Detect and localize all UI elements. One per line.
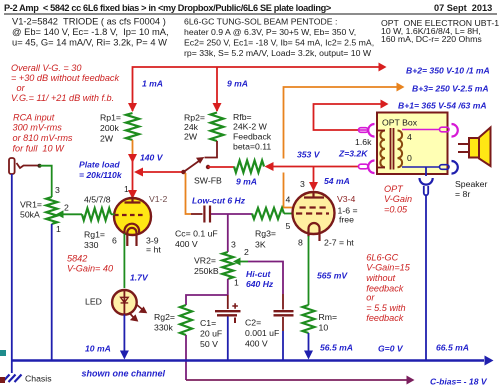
svg-text:9 mA: 9 mA bbox=[236, 177, 257, 187]
node: input junction bbox=[38, 164, 42, 168]
svg-text:2-7 = ht: 2-7 = ht bbox=[324, 238, 354, 248]
wire: primary top to box edge bbox=[377, 130, 385, 132]
svg-text:2W: 2W bbox=[100, 134, 114, 144]
svg-text:10 mA: 10 mA bbox=[85, 344, 111, 354]
svg-text:0.001 uF: 0.001 uF bbox=[245, 328, 279, 338]
wire: B+1 to OPT upper pin bbox=[314, 104, 386, 130]
wire: drop to V3-4 plate bbox=[313, 167, 315, 183]
svg-text:= 20k/110k: = 20k/110k bbox=[79, 170, 123, 180]
arrow into Rfb from plate line bbox=[265, 162, 274, 171]
V1 plate bbox=[125, 199, 141, 203]
V3 cathode bbox=[309, 223, 320, 241]
arrow into Rp2 bbox=[213, 103, 222, 112]
wire: C2 to bus bbox=[282, 331, 284, 360]
svg-text:54 mA: 54 mA bbox=[324, 176, 350, 186]
svg-text:8: 8 bbox=[298, 238, 303, 248]
wire: RCA centre pin hook bbox=[17, 163, 39, 168]
svg-text:07 Sept 2013: 07 Sept 2013 bbox=[434, 3, 492, 13]
svg-text:565 mV: 565 mV bbox=[317, 271, 348, 281]
svg-text:V-Gain: V-Gain bbox=[384, 194, 412, 204]
wire: V3 cathode to Rm bbox=[308, 236, 310, 305]
svg-text:300 mV-rms: 300 mV-rms bbox=[13, 123, 63, 133]
resistor Rg3 3K bbox=[252, 208, 284, 219]
wire: Rm to bus with arrow bbox=[308, 333, 310, 351]
wire: B+2 top rail bbox=[133, 67, 384, 111]
svg-text:0: 0 bbox=[407, 153, 412, 163]
svg-text:3: 3 bbox=[300, 179, 305, 189]
resistor Rfb 24K feedback bbox=[234, 161, 264, 173]
svg-text:Low-cut 6 Hz: Low-cut 6 Hz bbox=[192, 196, 246, 206]
wire: to VR1 top bbox=[40, 166, 52, 197]
svg-text:Rg2=: Rg2= bbox=[154, 312, 175, 322]
OPT secondary winding bbox=[398, 131, 403, 168]
svg-text:4: 4 bbox=[286, 195, 291, 205]
svg-text:1: 1 bbox=[56, 224, 61, 234]
wire: V1 plate feed bbox=[132, 160, 134, 191]
wire: LED to bus with arrow bbox=[123, 315, 125, 352]
resistor Rp1 200k bbox=[126, 113, 139, 140]
capacitor Cc 0.1uF bbox=[203, 206, 205, 223]
wire: secondary 0-tap (blue) bbox=[402, 166, 440, 168]
svg-text:shown one channel: shown one channel bbox=[82, 369, 166, 379]
tube V1-2 5842 envelope bbox=[114, 198, 151, 235]
svg-text:G=0 V: G=0 V bbox=[378, 344, 404, 354]
chassis jack below OPT bbox=[420, 178, 433, 185]
svg-text:= 8r: = 8r bbox=[455, 189, 470, 199]
svg-text:@ Eb= 140 V, Ec= -1.8 V, Ip=: @ Eb= 140 V, Ec= -1.8 V, Ip= 10 mA, bbox=[12, 27, 169, 37]
switch SW-FB blade bbox=[184, 160, 202, 173]
ground bus bbox=[12, 359, 484, 362]
svg-text:2W: 2W bbox=[184, 132, 198, 142]
potentiometer VR2 250kB bbox=[222, 252, 233, 279]
svg-text:or: or bbox=[366, 293, 375, 303]
svg-text:C2=: C2= bbox=[245, 318, 261, 328]
svg-text:Plate load: Plate load bbox=[79, 160, 120, 170]
svg-text:V3-4: V3-4 bbox=[337, 194, 356, 204]
svg-text:V-Gain= 40: V-Gain= 40 bbox=[67, 263, 113, 273]
svg-text:6: 6 bbox=[112, 236, 117, 246]
svg-text:400 V: 400 V bbox=[245, 339, 268, 349]
chassis ground symbol bbox=[3, 375, 22, 383]
V3 screen grid (dashed) bbox=[300, 206, 328, 208]
svg-text:6L6-GC: 6L6-GC bbox=[366, 253, 398, 263]
svg-text:heater 0.9 A @ 6.3V, P= 30+5 W: heater 0.9 A @ 6.3V, P= 30+5 W, Eb= 350 … bbox=[184, 27, 356, 37]
svg-text:beta=0.11: beta=0.11 bbox=[233, 142, 271, 152]
LED emission arrows bbox=[137, 305, 146, 313]
svg-text:Rfb=: Rfb= bbox=[233, 112, 252, 122]
capacitor C1 20uF bbox=[227, 295, 229, 309]
svg-text:66.5 mA: 66.5 mA bbox=[436, 343, 469, 353]
LED indicator bbox=[112, 290, 137, 315]
svg-text:3: 3 bbox=[231, 240, 236, 250]
wire: plate node horizontal with left arrow bbox=[141, 171, 184, 173]
svg-text:24k: 24k bbox=[184, 122, 199, 132]
wire: VR2 bottom to C1/Rg2 junction bbox=[227, 279, 229, 295]
svg-text:1: 1 bbox=[124, 184, 129, 194]
svg-text:200k: 200k bbox=[100, 123, 119, 133]
svg-text:or: or bbox=[14, 83, 26, 93]
svg-text:Overall V-G. = 30: Overall V-G. = 30 bbox=[11, 63, 81, 73]
svg-text:VR2=: VR2= bbox=[194, 256, 216, 266]
arrow into V1 plate bbox=[128, 190, 137, 199]
svg-text:SW-FB: SW-FB bbox=[194, 176, 222, 186]
V1 grid (dashed) bbox=[114, 214, 144, 216]
svg-text:4/5/7/8: 4/5/7/8 bbox=[84, 195, 111, 205]
OPT left top connector (plug+jack) bbox=[358, 129, 368, 131]
svg-text:10: 10 bbox=[319, 323, 329, 333]
svg-text:140 V: 140 V bbox=[140, 153, 164, 163]
svg-text:V.G.= 11/ +21 dB with f.b.: V.G.= 11/ +21 dB with f.b. bbox=[11, 93, 114, 103]
svg-text:Rm=: Rm= bbox=[319, 312, 338, 322]
V3 control grid (dashed) bbox=[296, 212, 329, 214]
OPT left bottom connector bbox=[359, 164, 369, 169]
svg-text:=0.05: =0.05 bbox=[384, 204, 408, 214]
wire: secondary 4-tap (magenta) bbox=[402, 129, 440, 131]
VR2 wiper arrow bbox=[233, 258, 241, 266]
resistor Rp2 24k bbox=[211, 113, 224, 142]
svg-text:for full 10 W: for full 10 W bbox=[13, 143, 66, 153]
svg-text:5: 5 bbox=[286, 221, 291, 231]
V3 plate bbox=[304, 193, 324, 198]
svg-text:640 Hz: 640 Hz bbox=[246, 279, 274, 289]
wire: SW node down to Cc (orange) bbox=[186, 173, 192, 214]
wire: OPT ground to bus bbox=[425, 195, 427, 360]
svg-text:RCA input: RCA input bbox=[13, 113, 55, 123]
wire: C-bias line bbox=[186, 379, 411, 381]
OPT right top connector bbox=[440, 127, 450, 132]
svg-text:5842: 5842 bbox=[67, 253, 87, 263]
svg-text:50kA: 50kA bbox=[20, 210, 40, 220]
svg-text:6L6-GC TUNG-SOL BEAM PENTODE :: 6L6-GC TUNG-SOL BEAM PENTODE : bbox=[184, 17, 337, 27]
svg-text:2: 2 bbox=[64, 203, 69, 213]
wire: Rg2 to C-bias line bbox=[185, 335, 187, 380]
wire: 6L6 plate line to OPT lower pin bbox=[271, 166, 358, 168]
svg-text:Rg1=: Rg1= bbox=[84, 230, 105, 240]
wire: VR1 bottom to bus bbox=[51, 224, 53, 360]
svg-text:C1=: C1= bbox=[200, 318, 216, 328]
svg-text:330k: 330k bbox=[154, 323, 173, 333]
resistor Rg2 330k bbox=[180, 305, 192, 335]
svg-text:B+2= 350 V-10 /1 mA: B+2= 350 V-10 /1 mA bbox=[406, 66, 490, 76]
wire: Rg3 to pin5 bbox=[284, 213, 296, 215]
svg-text:250kB: 250kB bbox=[194, 266, 219, 276]
svg-text:OPT: OPT bbox=[384, 184, 404, 194]
B+2 rail arrow bbox=[379, 63, 387, 72]
wire: Rp2 bottom lead to switch contact bbox=[205, 141, 218, 158]
svg-text:B+3= 250 V-2.5 mA: B+3= 250 V-2.5 mA bbox=[412, 84, 489, 94]
svg-text:56.5 mA: 56.5 mA bbox=[320, 343, 353, 353]
svg-text:Z=3.2K: Z=3.2K bbox=[338, 149, 368, 159]
B+1 arrow bbox=[381, 100, 389, 109]
svg-text:without: without bbox=[366, 273, 395, 283]
svg-text:3: 3 bbox=[55, 185, 60, 195]
scan artifact marks bbox=[0, 350, 6, 356]
tube V3-4 6L6 envelope bbox=[293, 192, 335, 234]
svg-text:3K: 3K bbox=[255, 240, 266, 250]
svg-text:50 V: 50 V bbox=[200, 339, 218, 349]
wire: V1 cathode to LED bbox=[123, 234, 125, 289]
svg-text:9 mA: 9 mA bbox=[227, 79, 248, 89]
svg-text:Rp1=: Rp1= bbox=[100, 113, 121, 123]
svg-text:OPT Box: OPT Box bbox=[382, 118, 418, 128]
svg-text:353 V: 353 V bbox=[297, 150, 321, 160]
arrow down to 140V node bbox=[128, 154, 137, 163]
svg-text:160 mA, DC-r= 220 Ohms: 160 mA, DC-r= 220 Ohms bbox=[381, 34, 482, 44]
svg-text:P-2 Amp < 5842 cc 6L6 fixed b: P-2 Amp < 5842 cc 6L6 fixed bias > in <m… bbox=[4, 3, 331, 13]
wire: grid node down to VR2 bbox=[227, 214, 229, 252]
svg-text:1.7V: 1.7V bbox=[130, 273, 149, 283]
wire: Rp1 to plate node (orange segment) bbox=[132, 140, 134, 154]
svg-text:rp= 33k, S= 5.2 mA/V, Load= 3.: rp= 33k, S= 5.2 mA/V, Load= 3.2k, output… bbox=[184, 48, 372, 58]
capacitor C2 0.001uF bbox=[282, 294, 284, 310]
svg-text:1 mA: 1 mA bbox=[142, 79, 163, 89]
svg-text:= ht: = ht bbox=[146, 245, 161, 255]
wire: orange screen feed (below crossover gap) bbox=[284, 173, 297, 208]
svg-text:u= 45, G= 14 mA/V, Ri= 3.2k, P: u= 45, G= 14 mA/V, Ri= 3.2k, P= 4 W bbox=[12, 38, 167, 48]
wire: RCA shield to bus/chassis bbox=[11, 174, 13, 373]
svg-text:free: free bbox=[339, 215, 354, 225]
svg-text:Speaker: Speaker bbox=[455, 179, 487, 189]
svg-text:330: 330 bbox=[84, 240, 99, 250]
svg-text:feedback: feedback bbox=[366, 313, 403, 323]
wire: B+3 orange rail bbox=[284, 87, 402, 159]
svg-text:V-Gain=15: V-Gain=15 bbox=[366, 263, 410, 273]
svg-text:VR1=: VR1= bbox=[20, 200, 42, 210]
svg-text:1.6k: 1.6k bbox=[355, 137, 372, 147]
speaker bbox=[458, 144, 469, 152]
svg-text:= +30 dB without feedback: = +30 dB without feedback bbox=[11, 73, 119, 83]
wire: C1 to ground bus bbox=[227, 317, 229, 361]
svg-text:Chasis: Chasis bbox=[25, 374, 52, 384]
svg-text:1: 1 bbox=[234, 278, 239, 288]
wire: 0-tap to chassis jack bbox=[425, 167, 427, 176]
svg-text:V1-2: V1-2 bbox=[149, 194, 168, 204]
OPT Box bbox=[377, 113, 448, 175]
potentiometer VR1 50kA bbox=[46, 197, 57, 224]
OPT core bbox=[391, 128, 394, 170]
C1 plus sign bbox=[232, 303, 238, 309]
svg-text:2: 2 bbox=[244, 247, 249, 257]
VR1 wiper arrow bbox=[56, 210, 64, 218]
svg-text:Ec2= 250 V, Ec1= -18 V, Ib= 54: Ec2= 250 V, Ec1= -18 V, Ib= 54 mA, Ic2= … bbox=[184, 38, 374, 48]
OPT right bottom connector bbox=[440, 165, 450, 170]
svg-text:or 810 mV-rms: or 810 mV-rms bbox=[13, 133, 73, 143]
svg-text:C-bias= - 18 V: C-bias= - 18 V bbox=[430, 377, 488, 385]
svg-text:Feedback: Feedback bbox=[233, 132, 272, 142]
svg-text:400 V: 400 V bbox=[175, 239, 198, 249]
wire: Cc to grid node (purple) bbox=[211, 213, 252, 215]
resistor Rm 10 bbox=[303, 305, 315, 333]
wire: wiper to C2 (purple) bbox=[248, 262, 283, 295]
svg-text:20 uF: 20 uF bbox=[200, 329, 222, 339]
V1 cathode/heater bbox=[125, 224, 140, 234]
svg-text:4: 4 bbox=[407, 132, 412, 142]
resistor Rg1 330 bbox=[82, 208, 111, 220]
svg-text:Cc= 0.1 uF: Cc= 0.1 uF bbox=[175, 229, 218, 239]
RCA input jack bbox=[9, 158, 15, 174]
svg-text:Rg3=: Rg3= bbox=[255, 229, 276, 239]
svg-text:LED: LED bbox=[85, 297, 102, 307]
node: switch pivot junction bbox=[181, 170, 186, 175]
svg-text:= 5.5 with: = 5.5 with bbox=[366, 303, 405, 313]
svg-text:24K-2 W: 24K-2 W bbox=[233, 122, 268, 132]
svg-text:Hi-cut: Hi-cut bbox=[246, 269, 271, 279]
node: switch contact to Rfb bbox=[206, 165, 210, 169]
arrow into Rp1 bbox=[128, 103, 137, 112]
svg-text:V1-2=5842 TRIODE ( as cfs F00: V1-2=5842 TRIODE ( as cfs F0004 ) bbox=[12, 17, 166, 27]
OPT primary winding bbox=[380, 131, 385, 168]
wire: contact to Rfb bbox=[208, 166, 234, 168]
svg-text:B+1= 365 V-54 /63 mA: B+1= 365 V-54 /63 mA bbox=[398, 101, 487, 111]
svg-text:Rp2=: Rp2= bbox=[184, 113, 205, 123]
